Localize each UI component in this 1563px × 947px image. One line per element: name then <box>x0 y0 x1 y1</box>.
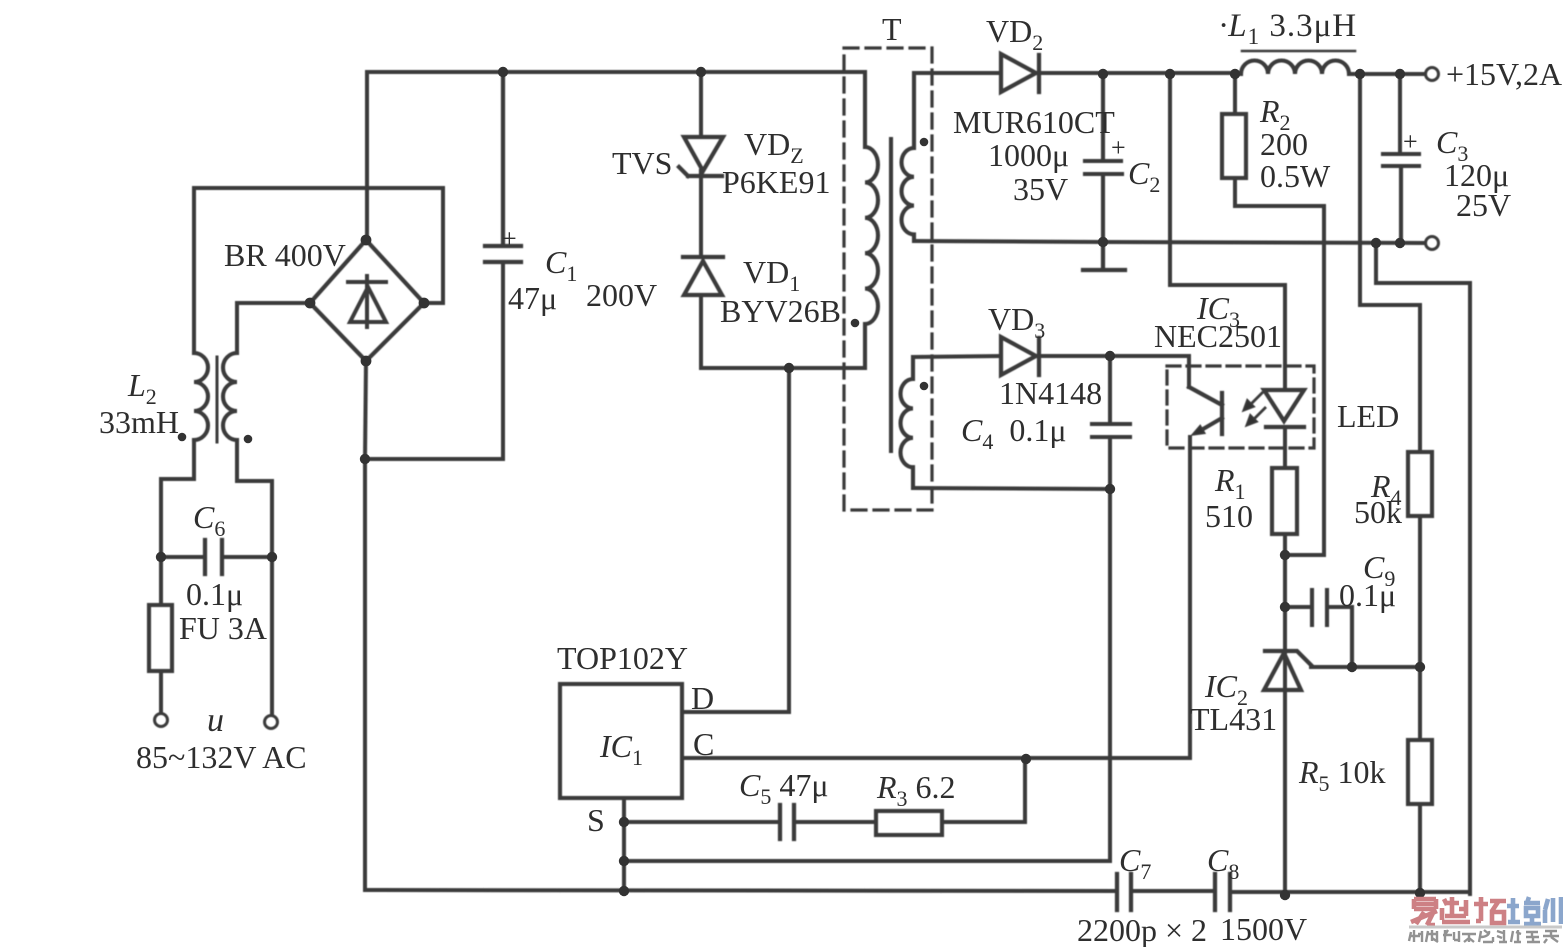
wire secondary2 to VD3 <box>913 356 1001 357</box>
node bridge right <box>419 298 430 309</box>
svg-text:VDZ: VDZ <box>744 126 804 168</box>
opto light arrowhead 2 <box>1246 415 1257 426</box>
svg-text:1000μ: 1000μ <box>988 137 1069 173</box>
phase dot primary <box>851 319 860 328</box>
transformer secondary 2 <box>901 357 914 488</box>
output terminal minus <box>1426 237 1439 250</box>
transformer primary winding <box>865 72 878 368</box>
capacitor C7 <box>1117 874 1131 910</box>
output terminal +15V <box>1426 68 1439 81</box>
opto emitter arrowhead <box>1192 426 1205 436</box>
inductor L2 left winding <box>194 353 208 440</box>
wire bridge bottom vertical to bottom rail <box>365 361 366 890</box>
svg-text:200V: 200V <box>586 277 657 313</box>
resistor R2 <box>1222 114 1246 178</box>
opto light arrow 2 <box>1250 408 1265 423</box>
node C1 return <box>360 454 370 464</box>
diode VD1 BYV26B <box>683 257 723 295</box>
wire LED cathode to R1 <box>1283 427 1287 468</box>
svg-text:TOP102Y: TOP102Y <box>557 640 688 676</box>
svg-text:85~132V AC: 85~132V AC <box>136 739 307 775</box>
wire S pin down <box>622 798 626 891</box>
node bridge left <box>305 298 316 309</box>
svg-text:2200p × 2: 2200p × 2 <box>1077 912 1207 947</box>
wire bottom rail right section <box>1131 891 1470 892</box>
node bridge top <box>361 235 372 246</box>
capacitor C1 <box>485 72 521 262</box>
wire bridge left vertex to L2 right winding <box>237 303 310 353</box>
svg-text:510: 510 <box>1205 498 1253 534</box>
wire left vertical to bridge top <box>365 72 369 240</box>
bridge inner diode <box>348 276 386 327</box>
wire C1 bottom horizontal <box>365 262 503 459</box>
optocoupler IC3 dashed box <box>1167 366 1314 448</box>
opto light arrowhead 1 <box>1243 400 1254 411</box>
wire opto emitter down to C pin wire <box>1188 437 1192 758</box>
wire R2 bottom to TL431 cathode node <box>1235 178 1324 555</box>
svg-text:0.5W: 0.5W <box>1260 158 1331 194</box>
wire bottom rail <box>365 890 1117 891</box>
node C wire / R3 <box>1021 754 1031 764</box>
fuse FU 3A <box>149 605 172 671</box>
L2 core <box>216 357 219 442</box>
wire R4 bottom to R5 top <box>1418 516 1422 740</box>
node C4 bottom <box>1105 484 1115 494</box>
phase dot L2 left <box>178 433 187 442</box>
svg-text:C8: C8 <box>1207 842 1239 884</box>
svg-text:LED: LED <box>1337 398 1399 434</box>
resistor R5 <box>1408 740 1432 804</box>
capacitor C9 <box>1285 590 1352 664</box>
svg-text:u: u <box>207 702 224 739</box>
wire D-pin riser <box>682 368 789 712</box>
svg-text:33mH: 33mH <box>99 404 179 440</box>
wire secondary1 top to VD2 <box>914 71 1001 75</box>
wire VD1 to clamp bottom <box>701 295 865 368</box>
svg-text:50k: 50k <box>1354 494 1402 530</box>
transformer secondary 1 <box>901 73 914 241</box>
wire R2 top lead <box>1233 74 1237 114</box>
svg-text:VD3: VD3 <box>988 301 1045 343</box>
transformer T dashed box <box>844 48 932 510</box>
capacitor C3 <box>1383 154 1419 243</box>
svg-text:C: C <box>693 726 714 762</box>
wire C6 right <box>222 555 272 559</box>
wire TL431 ref to R4/R5 node <box>1311 665 1420 669</box>
wire VD3 cathode rail <box>1036 356 1189 387</box>
node bridge bottom <box>361 356 372 367</box>
TVS diode VDz P6KE91 <box>679 137 723 176</box>
wire R4 branch <box>1360 74 1420 452</box>
wire TVS branch down from rail <box>699 72 703 137</box>
svg-text:C6: C6 <box>193 499 225 541</box>
node HV bus / C1 <box>498 67 508 77</box>
opto phototransistor <box>1189 387 1222 434</box>
svg-text:C4 0.1μ: C4 0.1μ <box>961 412 1067 454</box>
wire C5 to R3 <box>794 820 876 824</box>
svg-text:+: + <box>1403 127 1418 156</box>
svg-text:VD2: VD2 <box>986 13 1043 55</box>
svg-text:47μ: 47μ <box>508 280 557 316</box>
svg-text:+: + <box>502 224 517 253</box>
svg-text:+15V,2A: +15V,2A <box>1446 56 1562 92</box>
node C6 left <box>156 552 166 562</box>
diode VD2 MUR610CT <box>1001 54 1039 92</box>
node R5 / bottom rail <box>1415 888 1425 898</box>
svg-text:IC1: IC1 <box>599 728 643 770</box>
node +15 rail / L1,R4 <box>1355 69 1365 79</box>
phase dot L2 right <box>244 435 253 444</box>
svg-text:1N4148: 1N4148 <box>999 375 1102 411</box>
ground <box>1083 242 1125 270</box>
node C6 right <box>267 552 277 562</box>
svg-text:R3 6.2: R3 6.2 <box>876 769 956 811</box>
svg-text:+: + <box>1111 133 1126 162</box>
wire R5 bottom lead <box>1418 804 1422 893</box>
svg-text:BYV26B: BYV26B <box>720 293 841 329</box>
wire top rail left (rectified HV bus) <box>367 70 865 74</box>
svg-text:VD1: VD1 <box>743 254 800 296</box>
svg-text:0.1μ: 0.1μ <box>186 576 243 612</box>
node +15 rail / C2 <box>1098 69 1108 79</box>
resistor R4 <box>1408 452 1432 516</box>
svg-text:200: 200 <box>1260 126 1308 162</box>
wire R3 to C pin node <box>942 760 1025 822</box>
diode VD3 1N4148 <box>1001 337 1039 375</box>
node ref / R4 R5 <box>1415 662 1425 672</box>
capacitor C5 <box>780 805 794 839</box>
svg-text:T: T <box>882 11 902 47</box>
node minus rail / C2 <box>1098 237 1108 247</box>
node +15 rail / LED branch <box>1165 69 1175 79</box>
L1 label rule <box>1242 50 1355 53</box>
opto emitter with arrow <box>1198 418 1222 432</box>
capacitor C2 <box>1085 74 1122 241</box>
svg-text:TL431: TL431 <box>1190 701 1277 737</box>
svg-text:D: D <box>691 680 714 716</box>
wire +15V rail <box>1036 73 1425 74</box>
wire R1 bottom to TL431 and bottom rail <box>1283 534 1287 895</box>
inductor L2 right winding <box>223 353 237 440</box>
svg-text:R5 10k: R5 10k <box>1298 754 1386 796</box>
opto light arrow 1 <box>1247 393 1262 408</box>
node TL431 anode / bottom rail <box>1280 890 1290 900</box>
phase dot secondary2 <box>920 382 929 391</box>
wire S to C5 <box>624 820 780 824</box>
node minus rail / C3 <box>1395 238 1405 248</box>
AC terminal left <box>155 714 168 727</box>
svg-text:TVS: TVS <box>612 145 672 181</box>
svg-text:FU 3A: FU 3A <box>179 610 267 646</box>
capacitor C8 <box>1215 874 1230 910</box>
wire C pin <box>682 756 1190 760</box>
wire C6 left <box>161 555 205 559</box>
node R1 bottom / R2 <box>1280 550 1290 560</box>
node S / aux return <box>619 856 629 866</box>
svg-text:NEC2501: NEC2501 <box>1154 318 1282 354</box>
svg-text:L2: L2 <box>127 367 157 409</box>
node C9 left <box>1280 602 1290 612</box>
svg-text:P6KE91: P6KE91 <box>722 164 830 200</box>
svg-text:35V: 35V <box>1013 171 1068 207</box>
wire LED anode branch <box>1170 74 1285 390</box>
LED of optocoupler <box>1264 390 1304 427</box>
capacitor C4 <box>1092 424 1130 437</box>
transformer core <box>889 139 893 451</box>
capacitor C6 <box>205 540 222 574</box>
wire C3 top lead <box>1398 74 1402 153</box>
svg-text:C7: C7 <box>1119 842 1151 884</box>
svg-text:0.1μ: 0.1μ <box>1339 577 1396 613</box>
node +15 rail / C3 <box>1395 69 1405 79</box>
wire C4 bottom rail <box>624 437 1110 861</box>
wire fuse to terminal <box>159 671 163 712</box>
shunt regulator IC2 TL431 <box>1264 651 1311 690</box>
phase dot secondary1 <box>920 138 929 147</box>
node S / bottom rail <box>619 886 629 896</box>
node VD3 / C4 top <box>1105 351 1115 361</box>
wire output minus rail <box>914 241 1425 243</box>
svg-text:C2: C2 <box>1128 155 1160 197</box>
bridge rectifier BR 400V diamond <box>310 240 424 361</box>
node C9 right / ref wire <box>1347 662 1357 672</box>
svg-text:S: S <box>587 802 605 838</box>
AC terminal right <box>265 716 278 729</box>
resistor R3 <box>876 811 942 835</box>
inductor L1 3.3uH <box>1241 61 1349 75</box>
wire C4 top lead <box>1108 356 1112 423</box>
resistor R1 <box>1272 468 1297 534</box>
watermark logo (vector approximation of CJK) <box>1409 897 1562 943</box>
node HV bus / TVS <box>696 67 706 77</box>
svg-text:25V: 25V <box>1456 187 1511 223</box>
svg-text:BR 400V: BR 400V <box>224 237 346 273</box>
svg-text:1500V: 1500V <box>1220 911 1307 947</box>
svg-text:·L1 3.3μH: ·L1 3.3μH <box>1219 8 1357 49</box>
node S pin <box>619 817 629 827</box>
node clamp / D riser <box>784 363 794 373</box>
wire TVS to VD1 <box>699 176 703 257</box>
wire L2 right lead lower <box>237 440 272 714</box>
svg-text:MUR610CT: MUR610CT <box>953 104 1115 140</box>
wire L2 left lead lower <box>161 440 194 605</box>
node +15 rail / R2,L1 <box>1230 69 1240 79</box>
wire right return riser <box>1376 243 1470 894</box>
IC1 TOP102Y box <box>560 684 682 798</box>
wire bridge top-left frame <box>194 188 443 303</box>
svg-text:C5 47μ: C5 47μ <box>739 767 829 809</box>
wire left vertical to L2 <box>192 188 196 353</box>
node minus rail / right riser <box>1371 238 1381 248</box>
